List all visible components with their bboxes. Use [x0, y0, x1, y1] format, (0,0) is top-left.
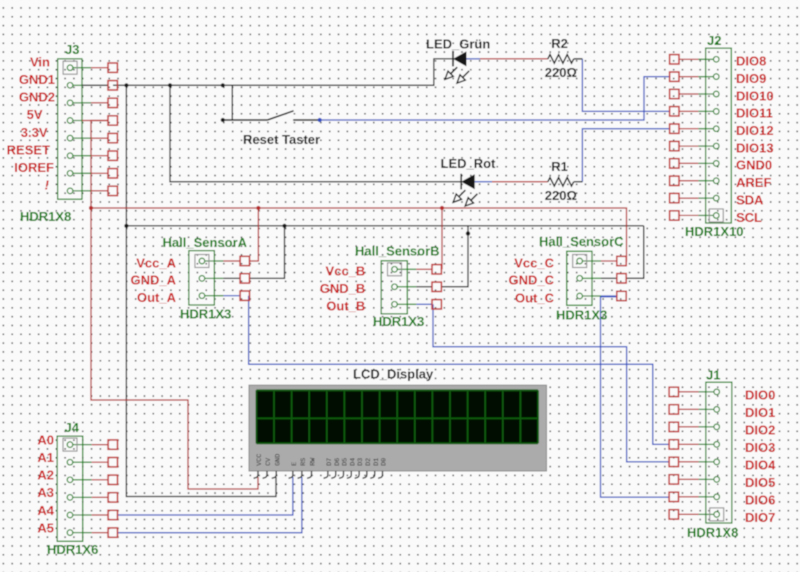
wire LED_Rot cathode stub (blue) — [475, 181, 492, 183]
J1 pin 6 lead + terminal — [706, 478, 717, 480]
J2 pin 7 lead + terminal — [706, 162, 717, 164]
svg-text:HDR1X6: HDR1X6 — [47, 542, 98, 557]
svg-text:GND0: GND0 — [736, 158, 772, 173]
J3 pin 8 lead + terminal — [70, 190, 82, 192]
J2 pin 10 lead + terminal — [706, 214, 717, 216]
LCD character cell grid — [255, 390, 257, 443]
svg-text:DIO5: DIO5 — [745, 475, 775, 490]
J2 pin-1 indicator — [709, 209, 723, 222]
svg-text:DIO8: DIO8 — [736, 54, 766, 69]
J2 pin 4 lead + terminal — [706, 110, 717, 112]
svg-text:HDR1X8: HDR1X8 — [687, 525, 738, 540]
svg-text:RS: RS — [300, 458, 308, 466]
J4 pin 6 lead + terminal — [70, 532, 83, 534]
svg-text:A5: A5 — [37, 520, 54, 535]
svg-text:LCD_Display: LCD_Display — [353, 367, 434, 382]
svg-text:LED_Grün: LED_Grün — [426, 37, 490, 52]
resistor R2 — [548, 55, 574, 64]
svg-text:A2: A2 — [37, 468, 54, 483]
J1 pin 3 lead + terminal — [706, 426, 717, 428]
J1 pin 2 lead + terminal — [706, 408, 717, 410]
switch S1 blade — [267, 111, 293, 120]
J3 pin 3 lead + terminal — [70, 102, 82, 104]
svg-text:SCL: SCL — [736, 210, 762, 225]
svg-text:D3: D3 — [357, 458, 365, 466]
wire R2 to J2 DIO11 (blue) — [582, 59, 669, 111]
svg-text:Out_C: Out_C — [515, 290, 555, 305]
svg-text:Vcc_A: Vcc_A — [136, 255, 176, 270]
wire GND tap to Hall_SensorC GND_C — [626, 226, 644, 278]
svg-text:220Ω: 220Ω — [545, 188, 577, 203]
J4 pin 2 lead + terminal — [70, 461, 83, 463]
J3 pin 1 lead + terminal — [70, 67, 82, 69]
junction GND1/x126 — [124, 83, 128, 87]
svg-text:Out_A: Out_A — [137, 290, 177, 305]
J2 pin 6 lead + terminal — [706, 145, 717, 147]
wire Vcc_B to 5V bus (red) — [441, 208, 443, 269]
svg-text:DIO1: DIO1 — [745, 405, 775, 420]
wire LED_Rot to R1 (red) — [492, 181, 548, 183]
J1 pin 1 lead + terminal — [706, 391, 717, 393]
wire 5V from J3 down (red) — [91, 121, 258, 490]
wire LED_Rot feed — [170, 85, 461, 182]
junction blue at switch output — [318, 118, 322, 122]
junction 5V bus x442 — [440, 206, 444, 210]
svg-text:GND_C: GND_C — [508, 273, 554, 288]
J1 pin 7 lead + terminal — [706, 496, 717, 498]
svg-text:DIO12: DIO12 — [736, 123, 774, 138]
Hall_SensorA pin-1 indicator — [195, 255, 209, 268]
wire 5V bus y=208 (red) — [91, 208, 627, 261]
switch S1 left contact+lead — [223, 119, 268, 121]
wire GND tap to Hall_SensorB GND_B — [441, 226, 468, 287]
Hall_SensorA pin 2 lead + terminal — [202, 277, 214, 279]
junction GND bus x126 — [124, 224, 128, 228]
Hall_SensorB pin-1 indicator — [388, 263, 402, 276]
svg-text:D6: D6 — [334, 458, 342, 466]
svg-text:DIO6: DIO6 — [745, 492, 775, 507]
junction GND bus x468 — [466, 231, 470, 235]
connector Hall_SensorB box — [381, 261, 407, 314]
Hall_SensorB pin 2 lead + terminal — [395, 286, 408, 288]
svg-text:Vcc_C: Vcc_C — [514, 255, 554, 270]
svg-text:D1: D1 — [373, 458, 381, 466]
Hall_SensorA pin 3 lead + terminal — [202, 295, 214, 297]
svg-text:DIO2: DIO2 — [745, 422, 775, 437]
J4 pin 3 lead + terminal — [70, 479, 83, 481]
junction GND bus x284 — [282, 224, 286, 228]
wire GND vertical bus x=126 — [126, 85, 276, 496]
svg-text:HDR1X8: HDR1X8 — [20, 209, 71, 224]
J4 pin 4 lead + terminal — [70, 496, 83, 498]
svg-text:DIO4: DIO4 — [745, 457, 776, 472]
svg-text:AREF: AREF — [736, 175, 771, 190]
wire Vcc_A to 5V bus (red) — [250, 208, 259, 261]
svg-text:HDR1X3: HDR1X3 — [180, 307, 231, 322]
svg-text:RESET: RESET — [7, 142, 50, 157]
svg-text:CV: CV — [265, 457, 273, 466]
svg-text:SDA: SDA — [736, 192, 764, 207]
switch S1 right lead (black) — [293, 119, 320, 121]
wire J4 A4 to LCD E (blue) — [118, 477, 293, 515]
connector Hall_SensorC box — [567, 251, 592, 305]
wire Out_A to J1 DIO3 (blue) — [249, 296, 669, 445]
svg-text:Hall_SensorA: Hall_SensorA — [163, 235, 248, 250]
svg-text:Hall_SensorB: Hall_SensorB — [355, 244, 440, 259]
wire LED_Gruen cathode stub (blue) — [467, 58, 481, 60]
wire LED_Gruen to R2 (red) — [480, 58, 548, 60]
wire GND tap to Hall_SensorA GND_A — [250, 226, 285, 279]
svg-text:HDR1X3: HDR1X3 — [556, 308, 607, 323]
svg-text:Out_B: Out_B — [326, 299, 365, 314]
svg-text:GND1: GND1 — [19, 72, 55, 87]
LCD pins — [254, 471, 258, 478]
J2 pin 9 lead + terminal — [706, 197, 717, 199]
svg-text:J3: J3 — [65, 42, 79, 57]
svg-text:3.3V: 3.3V — [21, 125, 48, 140]
svg-text:J4: J4 — [65, 420, 80, 435]
svg-text:R1: R1 — [551, 159, 568, 174]
J3 pin 2 lead + terminal — [70, 84, 82, 86]
svg-text:D7: D7 — [326, 458, 334, 466]
wire GND horizontal bus y=226 — [126, 225, 643, 227]
svg-text:DIO9: DIO9 — [736, 71, 766, 86]
Hall_SensorC pin 1 lead + terminal — [580, 260, 592, 262]
J2 pin 1 lead + terminal — [706, 58, 717, 60]
J1 pin 4 lead + terminal — [706, 443, 717, 445]
svg-text:D2: D2 — [365, 458, 373, 466]
Hall_SensorA pin 1 lead + terminal — [202, 260, 214, 262]
connector J2 box — [706, 48, 732, 223]
J1 pin 8 lead + terminal — [706, 513, 717, 515]
J2 pin 8 lead + terminal — [706, 180, 717, 182]
J4 pin-1 indicator — [63, 438, 77, 451]
J3 pin 4 lead + terminal — [70, 120, 82, 122]
J2 pin 2 lead + terminal — [706, 76, 717, 78]
wire R1 to J2 DIO12 (blue) — [582, 129, 669, 182]
connector J4 box — [57, 436, 83, 541]
junction 5V bus x91 — [89, 206, 93, 210]
svg-text:J1: J1 — [706, 368, 720, 383]
svg-text:Vcc_B: Vcc_B — [326, 264, 366, 279]
svg-text:D4: D4 — [349, 458, 357, 466]
svg-text:E: E — [291, 462, 299, 466]
Hall_SensorC pin 3 lead + terminal — [580, 295, 592, 297]
svg-text:DIO11: DIO11 — [736, 106, 773, 121]
svg-text:DIO0: DIO0 — [745, 387, 775, 402]
J1 pin 5 lead + terminal — [706, 461, 717, 463]
connector J1 box — [706, 382, 732, 523]
wire GND1 J3 to LED_Gruen (black) — [113, 59, 453, 85]
svg-text:VCC: VCC — [256, 454, 264, 466]
svg-text:D5: D5 — [342, 458, 350, 466]
svg-text:HDR1X10: HDR1X10 — [685, 224, 744, 239]
wire Out_B to J1 DIO4 (blue) — [433, 304, 669, 462]
junction GND1/x170 — [168, 83, 172, 87]
connector Hall_SensorA box — [189, 251, 215, 305]
wire Out_C to J1 DIO6 (blue) — [601, 297, 670, 497]
svg-text:5V: 5V — [27, 107, 43, 122]
connector J3 box — [58, 59, 82, 199]
svg-text:GND_A: GND_A — [130, 273, 176, 288]
svg-text:A0: A0 — [37, 432, 54, 447]
J2 pin 5 lead + terminal — [706, 128, 717, 130]
Hall_SensorC pin 2 lead + terminal — [580, 277, 592, 279]
J4 pin 1 lead + terminal — [70, 444, 83, 446]
svg-text:Hall_SensorC: Hall_SensorC — [539, 234, 624, 249]
Hall_SensorB pin 3 lead + terminal — [395, 303, 408, 305]
svg-text:GND_B: GND_B — [320, 281, 366, 296]
svg-text:Vin: Vin — [30, 54, 50, 69]
J3 pin 5 lead + terminal — [70, 137, 82, 139]
LED LED_Rot (D1) — [460, 174, 462, 190]
J3 pin-1 indicator — [63, 61, 77, 74]
J3 pin 7 lead + terminal — [70, 172, 82, 174]
junction GND1/x223 — [221, 83, 225, 87]
svg-text:A4: A4 — [37, 503, 54, 518]
J2 pin 3 lead + terminal — [706, 93, 717, 95]
LCD_Display module U1 body — [249, 385, 547, 471]
svg-text:220Ω: 220Ω — [545, 65, 577, 80]
wire J4 A5 to LCD RS (blue) — [118, 477, 302, 533]
svg-text:HDR1X3: HDR1X3 — [373, 314, 424, 329]
Hall_SensorB pin 1 lead + terminal — [395, 268, 408, 270]
switch S1 contact dot — [221, 118, 225, 122]
svg-text:A3: A3 — [37, 485, 54, 500]
svg-text:J2: J2 — [707, 33, 721, 48]
svg-text:IOREF: IOREF — [14, 160, 54, 175]
J1 pin-1 indicator — [710, 508, 724, 521]
svg-text:DIO10: DIO10 — [736, 88, 774, 103]
LCD screen — [256, 390, 538, 443]
Hall_SensorC pin-1 indicator — [573, 255, 587, 268]
resistor R1 — [548, 178, 574, 187]
svg-text:GND: GND — [274, 454, 282, 466]
svg-text:DIO3: DIO3 — [745, 440, 775, 455]
wire reset to J2 DIO9 (blue) — [320, 77, 670, 120]
LED LED_Gruen (D2) — [452, 51, 454, 67]
svg-text:GND2: GND2 — [19, 90, 55, 105]
svg-text:RW: RW — [310, 457, 318, 466]
svg-text:R2: R2 — [551, 36, 568, 51]
svg-text:D0: D0 — [381, 458, 389, 466]
svg-text:DIO7: DIO7 — [745, 510, 775, 525]
svg-text:Reset Taster: Reset Taster — [243, 132, 320, 147]
svg-text:!: ! — [45, 178, 50, 193]
svg-text:A1: A1 — [37, 450, 54, 465]
svg-text:DIO13: DIO13 — [736, 140, 774, 155]
svg-text:LED_Rot: LED_Rot — [441, 156, 497, 171]
J4 pin 5 lead + terminal — [70, 514, 83, 516]
junction 5V bus x258 — [256, 206, 260, 210]
wire reset-switch feed — [231, 85, 233, 120]
J3 pin 6 lead + terminal — [70, 155, 82, 157]
